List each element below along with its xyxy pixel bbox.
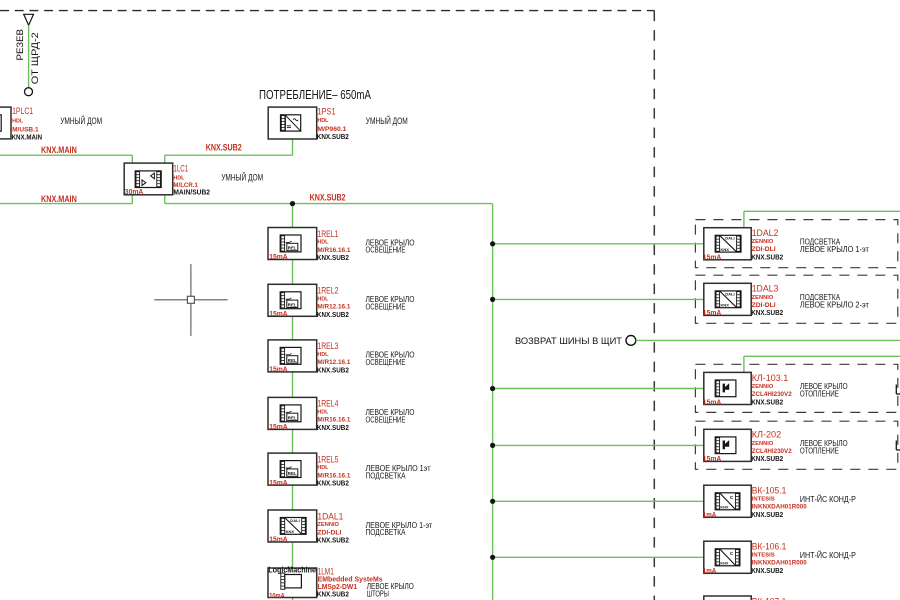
heating actuator КЛ-103.1 (ZENNIO ZCL4HI230V2) (703, 372, 848, 406)
svg-text:1DAL3: 1DAL3 (752, 284, 779, 294)
svg-text:ВК-107.1: ВК-107.1 (752, 596, 787, 600)
svg-text:KNX.SUB2: KNX.SUB2 (317, 536, 349, 545)
wire continuation from DAL2 top to next line device (744, 211, 900, 227)
svg-text:1PS1: 1PS1 (317, 107, 335, 117)
net label KNX.SUB2 (upper) (206, 143, 242, 153)
svg-text:1REL2: 1REL2 (317, 286, 338, 296)
heating actuator КЛ-202 (ZENNIO ZCL4HI230V2) (703, 429, 848, 463)
svg-text:РЕЗЕВ: РЕЗЕВ (15, 29, 25, 61)
junction node on right bus at VK-106.1 branch (490, 555, 495, 560)
svg-text:ОСВЕЩЕНИЕ: ОСВЕЩЕНИЕ (366, 246, 406, 255)
power supply PS1 (HDL M/P960.1) (268, 107, 408, 141)
consumption title ПОТРЕБЛЕНИЕ 650mA (259, 88, 371, 102)
svg-text:КЛ-103.1: КЛ-103.1 (752, 373, 789, 383)
wire KNX.SUB2 right bus vertical (492, 204, 494, 600)
svg-text:ВК-105.1: ВК-105.1 (752, 486, 787, 496)
svg-text:ZENNIO: ZENNIO (752, 239, 774, 245)
dashed enclosure frame for DAL2 (field device) (695, 220, 897, 268)
svg-text:15mA: 15mA (269, 424, 288, 431)
wire branch to DAL3 (493, 298, 704, 300)
clipped text fragment (next column) (896, 385, 900, 395)
svg-text:KNX.SUB2: KNX.SUB2 (317, 310, 349, 319)
clipped text fragment (next column, lower) (896, 441, 900, 451)
svg-text:KNX.MAIN: KNX.MAIN (12, 132, 42, 141)
svg-text:1REL1: 1REL1 (317, 229, 338, 239)
svg-text:ZENNIO: ZENNIO (752, 384, 774, 390)
svg-text:ОТОПЛЕНИЕ: ОТОПЛЕНИЕ (800, 390, 839, 399)
svg-text:ZENNIO: ZENNIO (752, 295, 774, 301)
svg-text:HDL: HDL (317, 352, 329, 358)
svg-text:1mA: 1mA (703, 512, 717, 519)
wire KNX.SUB2 left device column drop (292, 204, 294, 600)
wire branch to DAL2 (493, 243, 704, 245)
svg-text:KNX.SUB2: KNX.SUB2 (751, 397, 783, 406)
AC interface ВК-106.1 (INTESIS) (703, 541, 856, 575)
svg-text:ИНТ-ЙС КОНД-Р: ИНТ-ЙС КОНД-Р (800, 551, 856, 560)
junction node at REL column tap (290, 201, 295, 206)
svg-text:10mA: 10mA (269, 593, 285, 600)
svg-text:HDL: HDL (317, 410, 329, 416)
svg-text:ИНТ-ЙС КОНД-Р: ИНТ-ЙС КОНД-Р (800, 495, 856, 504)
svg-text:30mA: 30mA (125, 189, 144, 196)
svg-text:ЛЕВОЕ КРЫЛО 1-эт: ЛЕВОЕ КРЫЛО 1-эт (800, 245, 869, 254)
wire KNX.SUB2 from LC1 top-right to PS1 (165, 139, 293, 163)
svg-text:KNX.SUB2: KNX.SUB2 (751, 510, 783, 519)
interface PLC1 (HDL M/USB.1, clipped by viewport) (0, 106, 102, 141)
svg-text:KNX.SUB2: KNX.SUB2 (751, 566, 783, 575)
wire branch to VK-106.1 (493, 556, 704, 558)
junction node on right bus at DAL2 branch (490, 241, 495, 246)
svg-text:ОТОПЛЕНИЕ: ОТОПЛЕНИЕ (800, 447, 839, 456)
svg-text:KNX.SUB2: KNX.SUB2 (317, 590, 349, 599)
svg-text:HDL: HDL (317, 296, 329, 302)
net label KNX.MAIN (lower) (41, 194, 77, 204)
relay actuator REL3 (HDL M/R12.16.1) (268, 340, 415, 375)
svg-text:HDL: HDL (317, 465, 329, 471)
svg-text:HDL: HDL (173, 175, 185, 181)
wire branch to VK-105.1 (493, 500, 704, 502)
svg-text:ZENNIO: ZENNIO (317, 522, 339, 528)
dashed enclosure frame for DAL3 (field device) (695, 275, 897, 323)
svg-text:ЛЕВОЕ КРЫЛО 2-эт: ЛЕВОЕ КРЫЛО 2-эт (800, 301, 869, 310)
dashed enclosure frame for KL-202 (field device) (695, 421, 897, 469)
svg-text:HDL: HDL (12, 119, 24, 125)
svg-text:15mA: 15mA (269, 254, 288, 261)
svg-text:ВК-106.1: ВК-106.1 (752, 542, 787, 552)
wire KNX.MAIN lower segment from LC1 bottom-left (0, 195, 132, 204)
svg-text:15mA: 15mA (269, 537, 288, 544)
svg-text:1REL5: 1REL5 (317, 454, 338, 464)
junction node on right bus at DAL3 branch (490, 297, 495, 302)
svg-text:KNX.SUB2: KNX.SUB2 (310, 192, 346, 202)
svg-text:ОТ ЩРД-2: ОТ ЩРД-2 (29, 32, 40, 84)
svg-text:KNX.SUB2: KNX.SUB2 (751, 454, 783, 463)
junction node on right bus at VK-105.1 branch (490, 499, 495, 504)
relay actuator REL5 (HDL M/R16.16.1) (268, 453, 431, 488)
svg-text:ОСВЕЩЕНИЕ: ОСВЕЩЕНИЕ (366, 416, 406, 425)
wire KNX.MAIN upper segment into LC1 top-left (0, 155, 132, 163)
svg-text:ОСВЕЩЕНИЕ: ОСВЕЩЕНИЕ (366, 303, 406, 312)
node: bus return to panel (ВОЗВРАТ ШИНЫ В ЩИТ) (515, 336, 900, 348)
logic controller LM1 (Embedded Systems LogicMachine) (268, 565, 414, 600)
net label KNX.SUB2 (main) (310, 192, 346, 202)
svg-text:KNX.SUB2: KNX.SUB2 (317, 253, 349, 262)
AC interface ВК-107.1 (clipped at bottom edge) (704, 596, 787, 600)
wire continuation from KL-103.1 top (744, 356, 900, 372)
relay actuator REL2 (HDL M/R12.16.1) (268, 284, 415, 319)
AC interface ВК-105.1 (INTESIS) (703, 485, 856, 519)
svg-text:KNX.SUB2: KNX.SUB2 (206, 143, 242, 153)
svg-text:ВОЗВРАТ ШИНЫ В ЩИТ: ВОЗВРАТ ШИНЫ В ЩИТ (515, 336, 622, 347)
svg-text:1REL4: 1REL4 (317, 399, 338, 409)
svg-text:KNX.MAIN: KNX.MAIN (41, 145, 77, 155)
svg-text:15mA: 15mA (703, 456, 722, 463)
reserve feed from ЩРД-2 (spare riser) (15, 14, 40, 95)
DALI gateway DAL2 (ZENNIO ZDI-DALI) (703, 228, 869, 262)
svg-text:УМНЫЙ ДОМ: УМНЫЙ ДОМ (221, 172, 263, 183)
svg-text:KNX.SUB2: KNX.SUB2 (317, 423, 349, 432)
relay actuator REL4 (HDL M/R16.16.1) (268, 397, 415, 432)
svg-text:УМНЫЙ ДОМ: УМНЫЙ ДОМ (366, 115, 408, 126)
svg-text:15mA: 15mA (703, 255, 722, 262)
wire branch to KL-202 (493, 444, 704, 446)
DALI gateway DAL1 (ZENNIO ZDI-DALI) (268, 510, 432, 545)
svg-text:KNX.SUB2: KNX.SUB2 (317, 479, 349, 488)
svg-text:MAIN/SUB2: MAIN/SUB2 (173, 188, 210, 197)
svg-text:ПОТРЕБЛЕНИЕ– 650mA: ПОТРЕБЛЕНИЕ– 650mA (259, 88, 371, 102)
svg-text:KNX.MAIN: KNX.MAIN (41, 194, 77, 204)
svg-text:15mA: 15mA (703, 310, 722, 317)
wire KNX.SUB2 main horizontal from LC1 bottom-right to right bus (165, 195, 493, 204)
wire branch to KL-103.1 (493, 388, 704, 390)
svg-text:1mA: 1mA (703, 568, 717, 575)
svg-text:15mA: 15mA (703, 399, 722, 406)
svg-text:HDL: HDL (317, 240, 329, 246)
svg-text:УМНЫЙ ДОМ: УМНЫЙ ДОМ (60, 115, 102, 126)
svg-text:КЛ-202: КЛ-202 (752, 430, 782, 440)
svg-text:1PLC1: 1PLC1 (12, 106, 33, 116)
junction node on right bus at KL-202 branch (490, 443, 495, 448)
dashed enclosure frame for KL-103.1 (field device) (695, 364, 897, 412)
svg-text:KNX.SUB2: KNX.SUB2 (317, 132, 349, 141)
svg-text:KNX.SUB2: KNX.SUB2 (751, 308, 783, 317)
line coupler LC1 (HDL M/LCR.1) (124, 163, 263, 196)
svg-text:1DAL1: 1DAL1 (317, 511, 343, 521)
svg-text:ZENNIO: ZENNIO (752, 441, 774, 447)
svg-text:15mA: 15mA (269, 480, 288, 487)
DALI gateway DAL3 (ZENNIO ZDI-DALI) (703, 283, 869, 317)
svg-text:15mA: 15mA (269, 367, 288, 374)
svg-text:INTESIS: INTESIS (752, 497, 775, 503)
net label KNX.MAIN (upper) (41, 145, 77, 155)
svg-text:1DAL2: 1DAL2 (752, 228, 779, 238)
svg-text:ОСВЕЩЕНИЕ: ОСВЕЩЕНИЕ (366, 358, 406, 367)
svg-text:KNX.SUB2: KNX.SUB2 (751, 253, 783, 262)
cursor crosshair (154, 264, 227, 336)
svg-text:HDL: HDL (317, 118, 329, 124)
svg-text:1LC1: 1LC1 (173, 164, 188, 174)
svg-text:INTESIS: INTESIS (752, 553, 775, 559)
svg-text:KNX.SUB2: KNX.SUB2 (317, 366, 349, 375)
relay actuator REL1 (HDL M/R16.16.1) (268, 228, 415, 263)
svg-text:ПОДСВЕТКА: ПОДСВЕТКА (366, 471, 407, 480)
svg-text:LogicMachine: LogicMachine (268, 565, 316, 575)
svg-text:ШТОРЫ: ШТОРЫ (367, 590, 389, 599)
svg-text:15mA: 15mA (269, 311, 288, 318)
junction node on right bus at KL-103.1 branch (490, 386, 495, 391)
svg-text:1REL3: 1REL3 (317, 341, 338, 351)
svg-text:ПОДСВЕТКА: ПОДСВЕТКА (366, 528, 407, 537)
